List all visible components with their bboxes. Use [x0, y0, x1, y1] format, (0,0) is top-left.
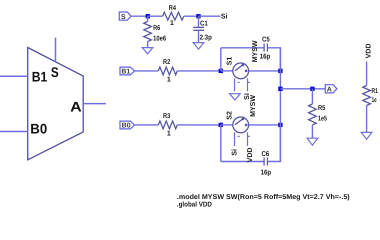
svg-text:B0: B0	[30, 120, 47, 136]
junction R4/C1	[196, 14, 200, 18]
port flag S	[119, 12, 131, 21]
svg-text:R5: R5	[318, 105, 325, 112]
mux pin B1 (left)	[0, 75, 28, 77]
switch S2	[226, 95, 257, 163]
ground under S1 control	[230, 94, 241, 100]
wire A tap	[280, 88, 325, 90]
svg-text:C1: C1	[200, 20, 208, 27]
svg-text:VDD: VDD	[247, 148, 254, 163]
capacitor C1	[193, 16, 212, 42]
svg-text:16p: 16p	[260, 53, 271, 60]
wire R2 junction to switch S1	[221, 70, 233, 72]
wire VDD to R1	[366, 62, 368, 86]
wire C5 rail left segment	[221, 47, 264, 49]
resistor R1	[363, 86, 378, 133]
wire junction up to C5 rail	[220, 48, 222, 71]
svg-text:A: A	[70, 99, 82, 115]
svg-text:VDD: VDD	[365, 44, 372, 59]
svg-text:B1: B1	[32, 69, 48, 85]
svg-text:C5: C5	[262, 36, 270, 43]
svg-text:MYSW: MYSW	[250, 95, 257, 117]
junction S2 out / bus	[278, 123, 282, 127]
svg-text:S1: S1	[226, 57, 233, 66]
resistor R5	[309, 89, 327, 138]
svg-text:C6: C6	[262, 151, 270, 158]
junction S1 out / bus	[278, 69, 282, 73]
wire S flag to node	[131, 15, 148, 17]
svg-text:Si: Si	[231, 149, 239, 156]
mux pin A (right)	[83, 103, 106, 105]
junction A tap / R5	[310, 87, 314, 91]
svg-text:.model MYSW SW(Ron=5 Roff=5Meg: .model MYSW SW(Ron=5 Roff=5Meg Vt=2.7 Vh…	[177, 193, 350, 201]
ground under C1	[193, 43, 204, 50]
svg-text:16p: 16p	[261, 170, 272, 177]
capacitor C5	[260, 36, 271, 60]
port flag B1	[120, 67, 134, 76]
svg-text:1: 1	[167, 76, 171, 83]
wire S1 out to bus	[249, 70, 281, 72]
svg-text:B0: B0	[122, 123, 131, 130]
svg-text:A: A	[327, 87, 332, 94]
ground under R5	[307, 138, 318, 145]
svg-text:S: S	[51, 64, 59, 80]
svg-text:R4: R4	[169, 5, 176, 12]
junction B1/C5 branch	[219, 69, 223, 73]
switch S1	[226, 40, 259, 100]
bus wire (A node vertical)	[279, 48, 281, 162]
svg-text:MYSW: MYSW	[252, 40, 259, 62]
resistor R4	[148, 5, 199, 27]
mux symbol body	[28, 48, 83, 160]
svg-text:R6: R6	[153, 25, 160, 32]
wire node to Si label	[199, 15, 221, 17]
wire R3 junction to switch S2	[221, 124, 233, 126]
port flag A	[325, 85, 337, 94]
svg-text:1: 1	[170, 20, 174, 27]
svg-text:1e5: 1e5	[318, 116, 327, 123]
resistor R2	[158, 59, 221, 84]
svg-text:2.3p: 2.3p	[200, 35, 212, 42]
mux pin B0 (left)	[0, 131, 28, 133]
svg-text:S2: S2	[226, 111, 233, 120]
svg-text:.global VDD: .global VDD	[177, 200, 212, 208]
svg-text:1: 1	[167, 130, 171, 137]
ground under R6	[142, 48, 153, 54]
svg-text:R1: R1	[372, 88, 378, 95]
wire S2 out to bus	[249, 124, 281, 126]
port flag B0	[120, 121, 134, 130]
junction bus / A tap	[278, 87, 282, 91]
resistor R6	[144, 16, 166, 47]
svg-text:Si: Si	[221, 12, 228, 20]
junction S/R6/R4	[146, 14, 150, 18]
wire C6 rail left segment	[221, 161, 264, 163]
svg-text:R2: R2	[163, 59, 170, 66]
svg-text:B1: B1	[121, 69, 130, 76]
wire C5 rail right segment	[268, 48, 281, 71]
junction B0/C6 branch	[219, 123, 223, 127]
mux pin S (top)	[55, 38, 57, 62]
resistor R3	[158, 113, 221, 138]
ground under R1	[361, 132, 372, 139]
wire junction down to C6 rail	[220, 125, 222, 162]
wire B1 flag to R2	[134, 70, 158, 72]
svg-text:10e6: 10e6	[153, 36, 166, 43]
svg-text:R3: R3	[163, 113, 170, 120]
svg-text:S: S	[121, 14, 126, 21]
svg-text:1e: 1e	[372, 97, 377, 104]
capacitor C6	[261, 151, 272, 177]
wire C6 rail right segment	[268, 125, 281, 162]
wire B0 flag to R3	[134, 124, 158, 126]
